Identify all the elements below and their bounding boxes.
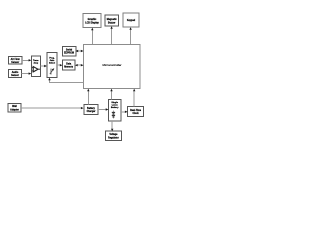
block H Battery Charger xyxy=(84,105,98,115)
wire MCU to T3 xyxy=(129,27,131,44)
svg-text:Battery: Battery xyxy=(87,107,96,110)
svg-text:Audio: Audio xyxy=(12,71,19,74)
svg-text:Real-Time: Real-Time xyxy=(130,110,142,112)
block I Li-Ion Battery xyxy=(108,99,121,121)
wire MCU to battery xyxy=(110,89,112,100)
svg-text:Wall: Wall xyxy=(12,106,17,108)
wire MCU to T1 xyxy=(91,28,93,45)
block D gain select xyxy=(47,53,57,78)
svg-text:Select: Select xyxy=(49,61,55,64)
battery symbol xyxy=(112,111,114,112)
wire MCU to T2 xyxy=(110,26,112,44)
svg-text:Clock: Clock xyxy=(132,113,139,115)
wire MCU to RTC xyxy=(133,89,135,107)
svg-text:Regulator: Regulator xyxy=(108,136,119,139)
wire E to MCU (bidirectional) xyxy=(76,50,84,52)
block E Serial EEPROM xyxy=(63,46,76,55)
block G Wall Adapter xyxy=(8,104,21,113)
svg-text:Sensor: Sensor xyxy=(11,62,19,64)
svg-text:Buzzer: Buzzer xyxy=(108,22,116,24)
block J Real-Time Clock xyxy=(128,107,144,117)
svg-text:EEPROM: EEPROM xyxy=(64,53,74,55)
wire battery to RTC xyxy=(121,111,128,113)
wire A to amp xyxy=(22,59,31,61)
variable arrow symbol xyxy=(50,69,52,75)
svg-text:LCD Display: LCD Display xyxy=(85,23,99,25)
svg-text:Battery: Battery xyxy=(111,106,119,109)
wire G to charger xyxy=(21,107,83,109)
wire C to D xyxy=(41,65,47,67)
block F Data Memory xyxy=(63,60,76,70)
wire F to MCU (bidirectional) xyxy=(75,64,84,66)
block U1 Microcontroller xyxy=(84,45,141,89)
svg-text:Magnetic: Magnetic xyxy=(107,18,118,21)
block B Audio Sensor xyxy=(9,70,22,78)
svg-text:Air Flow: Air Flow xyxy=(11,58,20,61)
svg-text:Memory: Memory xyxy=(64,67,74,69)
svg-text:Keypad: Keypad xyxy=(127,20,136,22)
wire MCU feedback to D xyxy=(48,78,83,83)
block K Voltage Regulator xyxy=(106,131,122,141)
block C amplifier xyxy=(32,56,41,76)
block T3 Keypad xyxy=(123,13,139,27)
svg-text:Graphic: Graphic xyxy=(88,19,97,21)
block T1 Graphic LCD Display xyxy=(83,14,101,28)
wire D to F xyxy=(57,64,63,66)
svg-text:Sensor: Sensor xyxy=(11,75,19,77)
svg-text:Amp: Amp xyxy=(33,61,38,64)
svg-text:Charger: Charger xyxy=(87,111,96,113)
wire B to amp xyxy=(22,72,32,74)
svg-text:Microcontroller: Microcontroller xyxy=(103,63,122,67)
svg-text:Voltage: Voltage xyxy=(109,133,118,136)
wire charger to battery xyxy=(98,108,108,110)
op-amp symbol xyxy=(33,67,38,72)
block A Air Flow Sensor xyxy=(9,57,23,65)
svg-text:Adapter: Adapter xyxy=(10,108,19,111)
wire charger to MCU xyxy=(87,89,89,105)
block T2 Magnetic Buzzer xyxy=(105,15,119,26)
svg-text:Data: Data xyxy=(66,62,72,65)
svg-text:Serial: Serial xyxy=(66,49,73,51)
wire battery to regulator xyxy=(111,121,113,131)
